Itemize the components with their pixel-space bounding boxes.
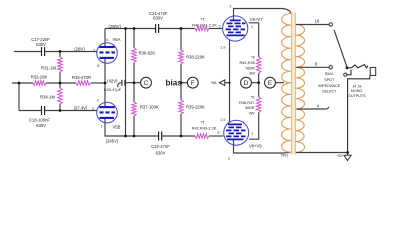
wire V8V9 plate to transformer <box>234 140 291 154</box>
svg-text:6: 6 <box>106 37 108 42</box>
wire bottom input to C18 <box>19 110 41 112</box>
wire input mid rail <box>12 82 33 84</box>
terminal 16 <box>329 23 332 26</box>
junction input tee <box>18 82 21 85</box>
wire C18 to V5B grid <box>45 110 97 112</box>
wire R46 to V8V9 <box>249 113 259 140</box>
junction bias node <box>180 81 183 84</box>
junction C21 R38 <box>180 27 183 30</box>
resistor R38-220K <box>179 50 184 64</box>
resistor R34-1M <box>58 88 63 104</box>
jack NC contact terminal <box>344 73 347 76</box>
resistor R36-82K <box>132 48 137 63</box>
transformer primary winding <box>282 14 291 153</box>
ground stub <box>347 153 349 156</box>
svg-text:16: 16 <box>315 18 320 23</box>
wire bias node to F <box>181 82 187 84</box>
resistor R32-18K <box>33 81 46 86</box>
svg-text:R34-1M: R34-1M <box>40 95 55 100</box>
terminal 8 <box>329 66 332 69</box>
junction C22 R39 <box>180 135 183 138</box>
wire arrow to 1-9 line <box>225 82 230 84</box>
junction R31 top <box>59 50 62 53</box>
junction switch pole <box>346 66 349 69</box>
svg-text:R31-1M: R31-1M <box>41 65 56 70</box>
resistor R44,R45-560R <box>256 57 261 73</box>
svg-text:3: 3 <box>229 4 231 9</box>
wire C21 to node <box>159 28 195 30</box>
wire V6V7 plate to transformer <box>234 9 291 21</box>
resistor R46,R47-560R <box>256 97 261 113</box>
junction R32 R33 R34 <box>59 82 62 85</box>
wire secondary common <box>296 152 348 154</box>
svg-text:IMPEDANCE: IMPEDANCE <box>318 84 340 88</box>
svg-text:SELECT: SELECT <box>322 90 337 94</box>
svg-text:2: 2 <box>251 24 253 29</box>
capacitor C18 plates <box>42 106 45 115</box>
svg-text:3: 3 <box>228 156 230 161</box>
svg-text:V5B: V5B <box>113 124 121 129</box>
wire V5B plate drop <box>105 118 158 136</box>
svg-text:8: 8 <box>315 62 318 67</box>
svg-text:SW4-: SW4- <box>325 72 335 76</box>
wire top rail to C21 <box>105 28 155 30</box>
svg-text:7: 7 <box>93 48 95 53</box>
resistor R33-470R <box>76 81 91 86</box>
junction bottom rail left <box>124 135 127 138</box>
svg-text:E: E <box>268 80 272 87</box>
wire C22 to node <box>162 135 195 137</box>
junction top rail left <box>124 27 127 30</box>
junction cathode node D <box>257 81 260 84</box>
svg-text:F: F <box>191 80 195 87</box>
node E <box>265 77 276 88</box>
wire R38 chain <box>180 29 182 137</box>
wire V6V7 cathode jog <box>249 23 259 57</box>
svg-text:*6: *6 <box>251 55 255 60</box>
tube V5A <box>97 43 118 64</box>
svg-text:560R: 560R <box>245 105 254 110</box>
resistor R40,R41-2.2K <box>195 26 209 31</box>
svg-text:R38-220K: R38-220K <box>186 55 205 60</box>
svg-text:8: 8 <box>97 63 99 68</box>
node C <box>141 77 152 88</box>
svg-text:V6+V7: V6+V7 <box>250 17 263 22</box>
svg-text:(42V): (42V) <box>107 79 118 84</box>
jack tip contact <box>347 65 368 68</box>
resistor R37-100K <box>132 102 137 116</box>
svg-text:1,9: 1,9 <box>220 117 225 122</box>
svg-text:R36-82K: R36-82K <box>139 51 156 56</box>
capacitor C20 lead <box>118 83 122 88</box>
svg-text:*7: *7 <box>201 120 206 125</box>
wire mid vertical plain <box>125 29 127 137</box>
svg-text:2: 2 <box>92 106 94 111</box>
svg-text:3W: 3W <box>249 70 255 75</box>
wire mid vertical R36 R37 <box>133 29 135 137</box>
jack ground wire <box>348 76 370 153</box>
capacitor C21 plates <box>156 24 159 33</box>
svg-text:(245V): (245V) <box>106 139 119 144</box>
capacitor C22 plates <box>159 132 162 141</box>
wire R32 to node <box>46 82 76 84</box>
wire C20 to node C <box>125 82 140 84</box>
svg-text:630V: 630V <box>153 15 163 20</box>
svg-text:R39-220K: R39-220K <box>186 105 205 110</box>
svg-text:V8+V9: V8+V9 <box>249 144 262 149</box>
transformer TR1 core <box>292 13 295 155</box>
svg-text:R37-100K: R37-100K <box>140 104 159 109</box>
tube V5B <box>97 102 118 123</box>
svg-text:V5A: V5A <box>113 37 121 42</box>
svg-text:R32-18K: R32-18K <box>31 74 48 79</box>
wire R31 stubs <box>59 52 61 84</box>
svg-text:OUTPUTS: OUTPUTS <box>348 94 366 98</box>
svg-text:3W: 3W <box>249 110 255 115</box>
wire R40 to V6V7 grid <box>209 28 223 30</box>
wire R34 stubs <box>59 83 61 111</box>
resistor R42,R43-2.2K <box>195 134 209 139</box>
svg-text:J4 J3-: J4 J3- <box>352 85 363 89</box>
svg-text:MONO: MONO <box>351 89 363 93</box>
node F <box>187 77 198 88</box>
svg-text:*7: *7 <box>201 17 206 22</box>
svg-text:R33-470R: R33-470R <box>72 75 91 80</box>
svg-text:*5: *5 <box>251 95 255 100</box>
wire input top to C17 <box>14 51 41 53</box>
jack sleeve <box>370 67 376 75</box>
wire V5A plate riser <box>104 29 106 48</box>
jack NC contact wire <box>347 70 351 75</box>
svg-text:630V: 630V <box>36 42 46 47</box>
wire R33 to cathode node <box>91 82 106 84</box>
capacitor C20 plates <box>122 80 125 86</box>
svg-text:R40,R41-2.2K: R40,R41-2.2K <box>192 23 217 28</box>
wire C17 to V5A grid <box>45 51 97 53</box>
junction cathode node V5 <box>104 82 107 85</box>
svg-text:2: 2 <box>251 131 253 136</box>
svg-text:bias: bias <box>166 79 183 88</box>
svg-text:R42,R43-2.2K: R42,R43-2.2K <box>192 126 217 131</box>
svg-text:4: 4 <box>317 104 320 109</box>
svg-text:1,9: 1,9 <box>220 44 225 49</box>
svg-text:SPDT: SPDT <box>324 78 335 82</box>
junction arrow 9A <box>228 82 230 84</box>
svg-text:D: D <box>244 80 249 87</box>
svg-text:(28V): (28V) <box>74 47 85 52</box>
arrow connector 9A <box>219 80 224 86</box>
svg-text:C22-47nF: C22-47nF <box>151 144 170 149</box>
svg-text:5: 5 <box>217 130 219 135</box>
svg-text:*9A: *9A <box>210 80 217 85</box>
wire R44 to node <box>258 73 260 97</box>
tube V8+V9 <box>224 120 249 145</box>
capacitor C17 plates <box>42 47 45 56</box>
wire V5A cathode to V5B <box>104 59 106 107</box>
resistor R39-220K <box>179 100 184 114</box>
junction node C <box>133 81 136 84</box>
tube U V6+V7 <box>223 16 248 41</box>
transformer secondary winding <box>296 25 305 68</box>
resistor R31-1M <box>58 57 63 72</box>
svg-text:5: 5 <box>219 24 221 29</box>
svg-text:C20-47µF: C20-47µF <box>104 87 122 92</box>
svg-text:TR1: TR1 <box>281 153 288 158</box>
wire 4 ohm tap <box>297 107 329 109</box>
wire D to cathode node <box>251 82 258 84</box>
junction ground net <box>346 151 349 154</box>
svg-text:630V: 630V <box>156 150 166 155</box>
wire R42 to V8V9 grid <box>209 135 223 137</box>
node D <box>241 77 252 88</box>
junction C18 R34 <box>59 109 62 112</box>
svg-text:C18-100nF: C18-100nF <box>29 117 50 122</box>
junction bottom rail R37 <box>133 135 136 138</box>
wire pins 1,9 tie line <box>229 40 231 122</box>
svg-text:C: C <box>144 80 149 87</box>
wire left drop <box>18 83 20 111</box>
svg-text:1: 1 <box>101 124 103 129</box>
switch SW4 lever <box>334 30 347 67</box>
wire E to primary tap <box>275 82 284 84</box>
wire 8 ohm tap <box>297 66 329 68</box>
svg-text:*20: *20 <box>337 153 344 158</box>
ground symbol <box>344 155 351 160</box>
svg-text:(27.4V): (27.4V) <box>74 106 88 111</box>
svg-text:(280V): (280V) <box>109 24 122 29</box>
svg-text:630V: 630V <box>36 123 46 128</box>
svg-text:3: 3 <box>97 98 99 103</box>
wire 16 ohm tap <box>296 24 329 26</box>
junction top rail R36 <box>133 27 136 30</box>
